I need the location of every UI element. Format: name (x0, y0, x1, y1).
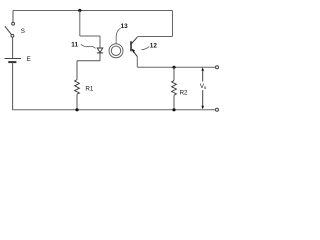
wire LED branch from top rail (80, 11, 100, 48)
Vs arrow (202, 69, 204, 82)
wire emitter to output top line (137, 57, 215, 68)
resistor R2 (173, 67, 175, 80)
battery E (5, 58, 22, 60)
wire top rail (13, 10, 173, 12)
terminal circle + output (216, 66, 219, 69)
wire switch to battery (12, 37, 14, 58)
wire battery to bottom rail (12, 63, 14, 110)
wire right drop from top rail (172, 11, 174, 37)
svg-text:12: 12 (150, 43, 158, 50)
wire diode cathode to R1 top (77, 53, 100, 79)
wire collector link (137, 36, 172, 38)
svg-text:13: 13 (121, 23, 129, 30)
transistor Q 12 (130, 41, 132, 51)
node junction dot on top rail (78, 9, 81, 12)
leader line 11 (81, 44, 96, 48)
wire switch top lead (12, 11, 14, 23)
wire bottom rail (13, 109, 216, 111)
svg-text:R2: R2 (180, 90, 188, 97)
svg-text:R1: R1 (85, 85, 93, 92)
diode 11 (LED) (97, 48, 103, 53)
leader line 12 (142, 46, 150, 49)
node junction dot R2 top (172, 66, 175, 69)
svg-text:S: S (21, 28, 25, 35)
switch S (12, 22, 15, 25)
node junction dot R2 bottom (172, 108, 175, 111)
terminal circle - output (216, 108, 219, 111)
svg-text:11: 11 (71, 42, 78, 49)
svg-text:E: E (27, 56, 31, 63)
node junction dot R1 bottom (75, 108, 78, 111)
lamp / coupling circle 13 (109, 44, 123, 58)
resistor R1 (75, 80, 80, 95)
wire R1 to bottom rail (76, 94, 78, 110)
svg-text:Vs: Vs (200, 83, 207, 90)
leader line 13 (116, 28, 121, 43)
